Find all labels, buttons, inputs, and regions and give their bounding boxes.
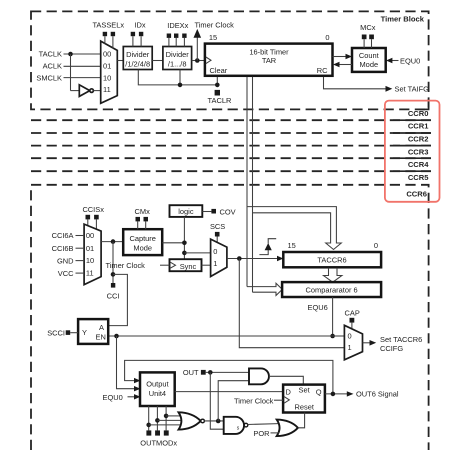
- svg-text:11: 11: [103, 85, 111, 94]
- svg-text:Timer Clock: Timer Clock: [195, 20, 235, 29]
- svg-text:CMx: CMx: [135, 207, 151, 216]
- svg-text:EQU0: EQU0: [400, 56, 420, 65]
- svg-text:CCR6: CCR6: [406, 190, 427, 199]
- svg-text:Set TAIFG: Set TAIFG: [395, 85, 430, 94]
- svg-text:GND: GND: [57, 256, 74, 265]
- svg-text:CCR5: CCR5: [408, 173, 429, 182]
- svg-text:RC: RC: [317, 66, 328, 75]
- svg-text:Count: Count: [359, 51, 380, 60]
- svg-text:A: A: [99, 323, 104, 332]
- svg-text:SMCLK: SMCLK: [36, 73, 62, 82]
- svg-text:Capture: Capture: [129, 234, 155, 243]
- svg-text:EQU0: EQU0: [103, 393, 123, 402]
- svg-text:CCI6B: CCI6B: [52, 244, 74, 253]
- svg-text:TACLK: TACLK: [39, 49, 62, 58]
- svg-text:EQU6: EQU6: [308, 303, 328, 312]
- svg-text:0: 0: [374, 241, 378, 250]
- svg-text:Timer Block: Timer Block: [381, 14, 425, 23]
- svg-text:01: 01: [103, 62, 111, 71]
- svg-text:15: 15: [209, 33, 217, 42]
- svg-text:CCR2: CCR2: [408, 134, 429, 143]
- svg-text:Timer Clock: Timer Clock: [234, 397, 274, 406]
- svg-text:D: D: [286, 387, 292, 396]
- svg-text:CCR1: CCR1: [408, 122, 429, 131]
- svg-text:POR: POR: [253, 429, 270, 438]
- svg-text:Q: Q: [316, 387, 322, 396]
- svg-text:01: 01: [86, 244, 94, 253]
- svg-text:COV: COV: [220, 207, 236, 216]
- svg-text:OUT: OUT: [183, 368, 199, 377]
- svg-text:CCR3: CCR3: [408, 147, 429, 156]
- svg-text:/1/2/4/8: /1/2/4/8: [125, 59, 150, 68]
- svg-text:TACLR: TACLR: [208, 96, 232, 105]
- svg-text:10: 10: [103, 73, 111, 82]
- svg-text:Mode: Mode: [133, 243, 152, 252]
- svg-text:OUTMODx: OUTMODx: [140, 438, 177, 447]
- svg-text:IDEXx: IDEXx: [167, 21, 188, 30]
- svg-text:Output: Output: [146, 380, 169, 389]
- svg-text:CCR4: CCR4: [408, 160, 429, 169]
- svg-text:ACLK: ACLK: [43, 62, 62, 71]
- svg-text:00: 00: [86, 231, 94, 240]
- svg-text:1: 1: [213, 259, 217, 268]
- svg-text:Divider: Divider: [126, 50, 150, 59]
- svg-text:0: 0: [213, 247, 217, 256]
- svg-text:IDx: IDx: [134, 20, 145, 29]
- svg-text:CCI: CCI: [107, 291, 120, 300]
- svg-text:CCR0: CCR0: [408, 109, 429, 118]
- svg-text:Clear: Clear: [210, 66, 228, 75]
- svg-text:Unit4: Unit4: [149, 389, 166, 398]
- svg-text:Set TACCR6: Set TACCR6: [380, 335, 422, 344]
- svg-text:10: 10: [86, 256, 94, 265]
- svg-text:Y: Y: [82, 328, 87, 337]
- svg-text:15: 15: [288, 241, 296, 250]
- svg-text:CCI6A: CCI6A: [52, 231, 74, 240]
- svg-text:TASSELx: TASSELx: [92, 20, 124, 29]
- svg-text:EN: EN: [96, 333, 106, 342]
- svg-text:CCISx: CCISx: [82, 205, 104, 214]
- svg-text:logic: logic: [178, 207, 194, 216]
- svg-text:VCC: VCC: [58, 269, 74, 278]
- svg-text:Sync: Sync: [180, 262, 197, 271]
- svg-text:MCx: MCx: [360, 23, 376, 32]
- svg-text:11: 11: [86, 269, 94, 278]
- svg-text:SCCI: SCCI: [47, 329, 65, 338]
- svg-text:OUT6 Signal: OUT6 Signal: [356, 390, 399, 399]
- svg-text:SCS: SCS: [210, 222, 225, 231]
- svg-text:TAR: TAR: [262, 56, 277, 65]
- svg-text:/1.../8: /1.../8: [168, 59, 187, 68]
- svg-text:0: 0: [325, 33, 329, 42]
- svg-text:TACCR6: TACCR6: [317, 256, 346, 265]
- svg-text:CCIFG: CCIFG: [380, 344, 403, 353]
- svg-text:00: 00: [103, 50, 111, 59]
- svg-text:CAP: CAP: [345, 309, 360, 318]
- svg-text:Mode: Mode: [359, 60, 378, 69]
- svg-text:Compararator 6: Compararator 6: [306, 286, 358, 295]
- svg-text:1: 1: [348, 343, 352, 352]
- svg-text:Set: Set: [299, 386, 311, 395]
- svg-text:0: 0: [348, 332, 352, 341]
- svg-text:16-bit Timer: 16-bit Timer: [249, 47, 289, 56]
- svg-text:Reset: Reset: [295, 402, 315, 411]
- svg-text:Timer Clock: Timer Clock: [106, 261, 146, 270]
- svg-text:Divider: Divider: [166, 50, 190, 59]
